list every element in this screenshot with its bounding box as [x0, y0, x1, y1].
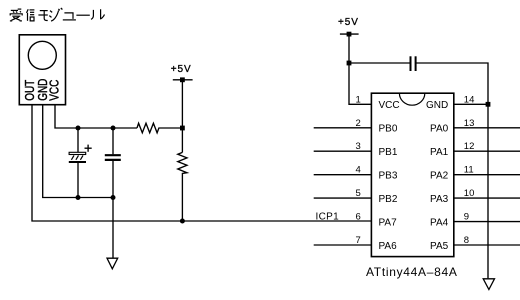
svg-text:PB2: PB2	[379, 194, 398, 205]
svg-text:4: 4	[356, 165, 361, 176]
svg-text:PA4: PA4	[430, 218, 449, 229]
svg-text:PB1: PB1	[379, 147, 398, 158]
svg-text:OUT: OUT	[24, 80, 37, 101]
svg-text:13: 13	[464, 118, 475, 129]
svg-text:2: 2	[356, 118, 361, 129]
svg-text:PB0: PB0	[379, 124, 398, 135]
svg-text:10: 10	[464, 188, 475, 199]
svg-text:PB3: PB3	[379, 171, 398, 182]
svg-text:VCC: VCC	[379, 100, 400, 111]
svg-text:PA7: PA7	[379, 218, 398, 229]
svg-text:9: 9	[464, 212, 469, 223]
svg-text:1: 1	[356, 94, 361, 105]
svg-text:7: 7	[356, 235, 361, 246]
svg-text:PA1: PA1	[430, 147, 449, 158]
svg-text:ATtiny44A–84A: ATtiny44A–84A	[366, 265, 458, 279]
svg-text:+5V: +5V	[338, 17, 359, 28]
svg-text:5: 5	[356, 188, 361, 199]
svg-text:14: 14	[464, 94, 475, 105]
svg-text:PA3: PA3	[430, 194, 449, 205]
svg-text:3: 3	[356, 141, 361, 152]
svg-text:GND: GND	[426, 100, 448, 111]
svg-text:11: 11	[464, 165, 474, 176]
svg-text:ICP1: ICP1	[316, 211, 340, 222]
svg-text:12: 12	[464, 141, 475, 152]
svg-text:PA0: PA0	[430, 124, 449, 135]
svg-text:PA2: PA2	[430, 171, 449, 182]
svg-text:6: 6	[356, 212, 361, 223]
svg-text:PA5: PA5	[430, 241, 449, 252]
svg-text:VCC: VCC	[49, 80, 62, 101]
svg-text:+5V: +5V	[171, 64, 192, 75]
svg-text:PA6: PA6	[379, 241, 398, 252]
svg-text:8: 8	[464, 235, 469, 246]
